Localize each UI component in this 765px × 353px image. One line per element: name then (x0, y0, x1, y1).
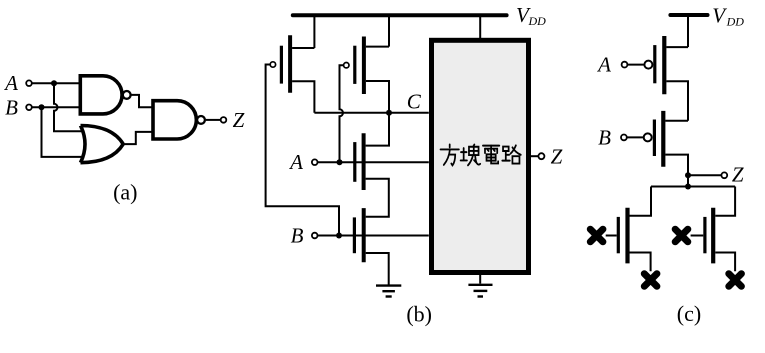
svg-text:(b): (b) (406, 302, 432, 327)
svg-text:A: A (3, 71, 18, 95)
svg-text:Z: Z (732, 163, 744, 187)
svg-text:B: B (598, 125, 611, 149)
svg-text:(c): (c) (677, 301, 701, 326)
svg-text:Z: Z (233, 108, 245, 132)
svg-text:B: B (291, 224, 304, 248)
svg-text:DD: DD (528, 14, 547, 28)
svg-text:C: C (407, 89, 422, 113)
svg-text:DD: DD (726, 15, 745, 29)
svg-text:V: V (712, 4, 727, 28)
svg-text:A: A (288, 150, 303, 174)
svg-text:B: B (5, 95, 18, 119)
svg-text:A: A (596, 53, 611, 77)
svg-text:Z: Z (551, 144, 563, 168)
svg-text:(a): (a) (113, 180, 137, 205)
